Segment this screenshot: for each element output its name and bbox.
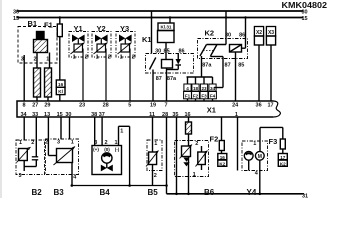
svg-text:B2: B2	[32, 188, 43, 197]
svg-text:28: 28	[162, 112, 168, 118]
svg-text:B6: B6	[204, 188, 215, 197]
svg-text:2: 2	[85, 55, 88, 61]
svg-text:38: 38	[91, 112, 97, 118]
svg-text:15: 15	[13, 16, 19, 22]
svg-text:F2: F2	[210, 135, 219, 144]
svg-text:F3: F3	[201, 93, 207, 98]
svg-text:F2: F2	[193, 93, 199, 98]
svg-text:Y4: Y4	[247, 188, 257, 197]
svg-text:17: 17	[280, 155, 286, 160]
svg-text:2: 2	[132, 55, 135, 61]
svg-text:87a: 87a	[202, 62, 212, 68]
svg-text:1: 1	[235, 112, 238, 118]
svg-text:2: 2	[33, 57, 36, 63]
svg-text:8: 8	[22, 102, 25, 108]
svg-text:2: 2	[45, 140, 48, 146]
svg-text:34: 34	[20, 112, 27, 118]
svg-text:2: 2	[154, 173, 157, 179]
svg-text:28: 28	[103, 102, 109, 108]
svg-text:16: 16	[184, 112, 190, 118]
svg-text:1: 1	[96, 55, 99, 61]
svg-text:1: 1	[71, 140, 74, 146]
svg-text:35: 35	[172, 112, 178, 118]
svg-text:1: 1	[46, 57, 49, 63]
svg-text:30: 30	[13, 9, 19, 15]
svg-text:30: 30	[65, 112, 71, 118]
svg-text:13: 13	[44, 112, 50, 118]
svg-text:Y2: Y2	[97, 24, 106, 33]
svg-text:11: 11	[149, 112, 155, 118]
svg-text:18: 18	[193, 86, 199, 91]
svg-text:Kl.31: Kl.31	[161, 24, 172, 29]
svg-text:2: 2	[108, 55, 111, 61]
svg-text:34: 34	[210, 86, 216, 91]
svg-text:2: 2	[195, 141, 198, 147]
svg-text:X1: X1	[207, 105, 216, 114]
svg-text:B5: B5	[148, 188, 159, 197]
svg-text:B1: B1	[28, 19, 38, 28]
svg-text:29: 29	[44, 102, 50, 108]
svg-text:F1: F1	[185, 93, 191, 98]
svg-text:M: M	[258, 154, 262, 160]
svg-text:1: 1	[120, 55, 123, 61]
svg-text:2: 2	[31, 140, 34, 146]
svg-text:3: 3	[57, 140, 60, 146]
svg-text:23: 23	[79, 102, 85, 108]
svg-text:Kl: Kl	[58, 89, 63, 94]
svg-text:4: 4	[186, 86, 189, 91]
svg-text:Y3: Y3	[120, 24, 129, 33]
svg-text:37: 37	[99, 112, 105, 118]
svg-text:16: 16	[58, 82, 64, 87]
svg-text:F4: F4	[210, 93, 216, 98]
svg-text:87: 87	[156, 76, 162, 82]
svg-text:X3: X3	[268, 30, 274, 36]
svg-text:B4: B4	[100, 188, 111, 197]
svg-text:2: 2	[104, 140, 107, 146]
svg-text:16: 16	[220, 155, 226, 160]
svg-text:B3: B3	[54, 188, 65, 197]
svg-text:K1: K1	[142, 35, 152, 44]
svg-text:30: 30	[301, 9, 307, 15]
svg-text:86: 86	[178, 48, 184, 54]
svg-text:(-): (-)	[115, 147, 120, 152]
svg-text:1: 1	[114, 140, 117, 146]
svg-text:F3: F3	[269, 137, 278, 146]
svg-text:1: 1	[193, 172, 196, 178]
svg-text:F1: F1	[44, 21, 53, 30]
svg-text:36: 36	[256, 102, 262, 108]
svg-text:K2: K2	[280, 161, 286, 166]
svg-text:30: 30	[225, 32, 231, 38]
svg-text:K2: K2	[205, 29, 215, 38]
svg-text:1: 1	[253, 141, 256, 147]
svg-text:23: 23	[201, 86, 207, 91]
svg-text:Y1: Y1	[74, 24, 83, 33]
svg-text:1: 1	[73, 55, 76, 61]
svg-text:30: 30	[155, 48, 161, 54]
svg-text:(0): (0)	[104, 147, 110, 152]
svg-text:K2: K2	[219, 161, 225, 166]
svg-text:85: 85	[238, 62, 244, 68]
svg-text:33: 33	[32, 112, 38, 118]
svg-text:87: 87	[225, 62, 231, 68]
svg-text:X2: X2	[256, 30, 262, 36]
svg-text:5: 5	[128, 102, 131, 108]
svg-text:17: 17	[267, 102, 273, 108]
svg-text:1: 1	[19, 140, 22, 146]
svg-text:3: 3	[94, 140, 97, 146]
svg-text:(+): (+)	[93, 147, 99, 152]
svg-text:86: 86	[239, 32, 245, 38]
svg-text:31: 31	[302, 194, 308, 199]
svg-text:3: 3	[18, 173, 21, 179]
svg-text:1: 1	[154, 141, 157, 147]
svg-text:15: 15	[301, 16, 307, 22]
svg-text:3: 3	[21, 57, 24, 63]
svg-text:7: 7	[164, 102, 167, 108]
svg-text:KMK04802: KMK04802	[282, 1, 328, 10]
svg-text:19: 19	[150, 102, 156, 108]
svg-text:27: 27	[32, 102, 38, 108]
svg-text:15: 15	[57, 112, 63, 118]
svg-text:87a: 87a	[167, 76, 177, 82]
svg-text:1: 1	[120, 129, 123, 135]
svg-text:24: 24	[232, 102, 239, 108]
svg-text:85: 85	[164, 48, 170, 54]
